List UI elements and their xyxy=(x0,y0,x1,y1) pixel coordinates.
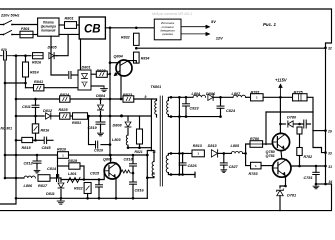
node x5-83 xyxy=(4,82,7,85)
svg-text:R817: R817 xyxy=(38,184,48,188)
label pin 32 xyxy=(328,47,332,51)
node R814-x5 link xyxy=(24,82,27,85)
node rail2 C826 xyxy=(181,152,184,155)
svg-text:режима: режима xyxy=(161,32,173,36)
node Q802 collector node xyxy=(109,154,112,157)
label pin 31 xyxy=(328,165,332,169)
wire pin29 to pin33 zigzag xyxy=(313,131,326,153)
node D811 gnd xyxy=(60,197,63,200)
wire C781 stem xyxy=(315,166,317,172)
node C826 bottom xyxy=(181,173,184,176)
wire D801 to ground xyxy=(91,85,104,87)
resistor R779 xyxy=(297,127,302,134)
transistor Q781 xyxy=(266,154,291,177)
wire line117 to R816v xyxy=(35,116,37,124)
diode D805 xyxy=(48,46,58,59)
wire C823 top xyxy=(185,97,187,103)
wire C816 bottom xyxy=(132,184,134,198)
wire R814 top xyxy=(25,56,27,62)
wire D813 to L805 xyxy=(219,152,232,154)
svg-text:NC 801: NC 801 xyxy=(1,127,13,131)
svg-text:R838: R838 xyxy=(97,69,107,73)
svg-text:D804: D804 xyxy=(96,94,106,98)
transistor Q780 xyxy=(266,133,290,154)
svg-text:R816: R816 xyxy=(41,129,51,133)
node line178-x16 xyxy=(15,177,18,180)
wire rail2 from T801 xyxy=(171,152,192,154)
svg-text:R819: R819 xyxy=(68,159,78,163)
capacitor C824 xyxy=(217,106,236,113)
ground main bus xyxy=(57,198,64,204)
node T801 s2 top xyxy=(170,152,173,155)
wire primary upper bottom stub xyxy=(156,115,158,118)
resistor R816 lower xyxy=(32,124,50,133)
wire L805 to node xyxy=(243,152,246,154)
node x5-155 xyxy=(4,154,7,157)
label transformer TK801 xyxy=(151,85,162,89)
wire filter to R801 xyxy=(59,24,65,26)
node C816 gnd xyxy=(132,197,135,200)
transformer T801 secondary upper winding xyxy=(167,101,169,115)
wire top supply rail xyxy=(0,9,332,48)
svg-text:D812: D812 xyxy=(43,109,53,113)
resistor R781 xyxy=(251,91,264,101)
node shield-97 xyxy=(178,96,181,99)
svg-text:10: 10 xyxy=(152,172,156,176)
node line155 on x147 crossing xyxy=(146,154,149,157)
wire C824 bottom xyxy=(220,108,222,116)
wire Q804 base xyxy=(110,62,120,64)
node rail-line155 xyxy=(109,154,112,157)
capacitor C845 xyxy=(42,137,52,150)
wire C826 bottom xyxy=(182,165,184,174)
fuse F801 xyxy=(20,27,33,38)
capacitor C826 xyxy=(179,163,197,168)
svg-text:Модуль питания МП-403-1: Модуль питания МП-403-1 xyxy=(152,12,193,16)
svg-text:R851: R851 xyxy=(72,121,81,125)
ground under C819 xyxy=(97,131,103,136)
node rail115 C824 xyxy=(219,96,222,99)
diode D813 xyxy=(208,144,218,157)
resistor R783 xyxy=(249,162,262,176)
wire CB bottom to optocoupler xyxy=(80,39,82,70)
wire C818-C816 xyxy=(132,166,134,181)
node switch S1 pole1 left xyxy=(3,24,5,26)
svg-text:питания: питания xyxy=(41,29,55,33)
node C781 top xyxy=(315,165,318,168)
transformer T801 core xyxy=(160,96,162,186)
node snubber mid xyxy=(132,172,135,175)
wire to R816 xyxy=(14,55,31,57)
svg-text:31: 31 xyxy=(328,165,332,169)
svg-text:620: 620 xyxy=(1,48,7,52)
diode D780 xyxy=(287,116,297,128)
resistor R775 xyxy=(293,91,308,101)
wire mains line 1 left xyxy=(0,24,4,26)
svg-text:C818: C818 xyxy=(124,157,134,161)
wire T801 shield rail xyxy=(178,97,180,174)
wire D781 to bottom rail xyxy=(279,196,281,211)
node T801 s1 top xyxy=(170,96,173,99)
wire line117 to C819 xyxy=(100,116,102,121)
diode D808 xyxy=(113,122,131,128)
wire Q802 emitter xyxy=(115,178,117,198)
wire 12V output arrow xyxy=(181,32,223,40)
inductor L804 xyxy=(192,92,206,97)
inductor L805 xyxy=(231,144,243,153)
transformer T801 secondary lower winding xyxy=(166,155,168,173)
svg-text:ТК801: ТК801 xyxy=(151,85,162,89)
wire rail 0V lower xyxy=(171,174,195,176)
node rail-R838 xyxy=(109,73,111,75)
node connector pin 32 xyxy=(324,47,327,50)
node R782-emitter xyxy=(298,165,301,168)
wire gnd bus up to T801 pin10 xyxy=(147,151,151,199)
svg-text:R821: R821 xyxy=(135,150,143,154)
node +115 junction xyxy=(279,96,282,99)
node C810 to line117 xyxy=(87,115,90,118)
wire D805 to filter drop xyxy=(54,55,57,57)
diode D812 xyxy=(43,109,53,119)
wire C823 bottom xyxy=(185,106,187,117)
wire R851 to rail xyxy=(88,115,152,117)
capacitor C810 xyxy=(94,141,104,152)
resistor R801 xyxy=(65,17,77,29)
wire D811 to gnd rail xyxy=(60,190,62,199)
svg-text:D811: D811 xyxy=(46,192,55,196)
node connector pin 34 xyxy=(324,183,327,186)
node C815 top xyxy=(98,178,101,181)
wire line99 to D804 xyxy=(100,99,102,104)
svg-text:Q802: Q802 xyxy=(103,158,113,162)
resistor R814 xyxy=(23,62,39,77)
svg-text:C815: C815 xyxy=(90,172,100,176)
wire R816v bottom xyxy=(35,133,37,140)
svg-text:R810: R810 xyxy=(57,148,67,152)
node D781 top xyxy=(284,185,287,188)
resistor R838 xyxy=(96,69,107,77)
resistor R821 xyxy=(137,129,143,144)
node Q804 base junction xyxy=(109,61,112,64)
wire R780 to Q780 xyxy=(263,143,273,145)
node line155-C818 xyxy=(132,154,135,157)
svg-text:D805: D805 xyxy=(48,46,58,50)
transistor Q802 xyxy=(103,158,121,180)
wire mains line 1 to filter xyxy=(12,24,38,26)
wire left rail x5 lower xyxy=(4,83,6,178)
wire C812 to gnd xyxy=(36,163,38,168)
wire main vertical rail from CB xyxy=(109,28,111,155)
node gnd bus left corner xyxy=(15,197,18,200)
wire L803 to node xyxy=(127,145,129,148)
svg-text:220v 50Hz: 220v 50Hz xyxy=(0,14,19,18)
resistor R824 xyxy=(60,93,70,102)
wire regulator frame xyxy=(266,111,313,113)
tick rail 0V end xyxy=(194,172,196,177)
wire pin34 link xyxy=(316,183,326,185)
label R821 and pin 11 xyxy=(135,150,157,154)
inductor L807 xyxy=(232,92,246,97)
svg-text:R780: R780 xyxy=(250,137,260,141)
svg-text:L807: L807 xyxy=(232,92,242,96)
svg-text:L803: L803 xyxy=(112,138,122,142)
node line117-C811 xyxy=(34,115,37,118)
capacitor C818 xyxy=(124,157,137,166)
optocoupler D801 xyxy=(78,66,91,91)
wire sec lower bottom xyxy=(168,173,171,175)
resistor R813 xyxy=(192,144,204,157)
diode D806 xyxy=(206,92,216,100)
svg-text:Q804: Q804 xyxy=(114,55,124,59)
wire C814 to D811 xyxy=(60,178,61,182)
node connector pin 33 xyxy=(324,151,327,154)
node T801 s2 bottom xyxy=(170,173,173,176)
diode D804 xyxy=(96,94,106,110)
wire C824 stem xyxy=(220,97,222,105)
capacitor C813 xyxy=(69,72,71,79)
svg-text:R825: R825 xyxy=(59,108,69,112)
label pin 10 xyxy=(152,172,156,176)
node T801 s1 bottom xyxy=(170,115,173,118)
node line117-term xyxy=(120,114,123,117)
node D780 junction xyxy=(279,123,282,126)
wire R832 junction to pin 32 xyxy=(136,47,325,49)
resistor R819 xyxy=(68,159,80,169)
wire mains line 2 to fuse xyxy=(12,34,20,36)
wire R783 to Q781 xyxy=(261,165,273,167)
label pin 9 xyxy=(145,95,147,99)
svg-text:C816: C816 xyxy=(135,189,145,193)
node C815 gnd xyxy=(98,197,101,200)
wire R782 bottom xyxy=(299,156,301,167)
node C823 top xyxy=(185,96,188,99)
wire R819 left xyxy=(58,165,69,167)
capacitor C781 xyxy=(304,172,320,180)
node rail-line117 xyxy=(109,115,112,118)
svg-text:C814: C814 xyxy=(47,167,57,171)
wire node to pin11 line xyxy=(128,147,151,149)
svg-text:C812: C812 xyxy=(24,162,34,166)
svg-text:32: 32 xyxy=(328,47,332,51)
wire C827 stem xyxy=(223,153,225,163)
svg-text:C823: C823 xyxy=(190,107,200,111)
node shield-116 xyxy=(178,115,181,118)
+115V arrow xyxy=(275,78,288,98)
resistor R820 zigzag xyxy=(121,170,133,173)
resistor R815 xyxy=(22,137,33,149)
wire C818 stem xyxy=(132,155,134,163)
wire R824 to R823 xyxy=(70,98,123,100)
resistor R825 xyxy=(59,108,71,119)
svg-text:R775: R775 xyxy=(294,91,304,95)
inductor L806 xyxy=(24,176,36,188)
wire R841 to optocoupler xyxy=(44,87,78,89)
wire line99 left xyxy=(16,98,60,100)
label pin 34 xyxy=(329,180,333,184)
degaussing CB box xyxy=(79,17,105,39)
svg-text:C827: C827 xyxy=(229,165,239,169)
wire C780 right tick xyxy=(307,123,311,125)
node CB out junction B xyxy=(135,27,138,30)
wire C827 gnd stem xyxy=(223,165,225,168)
wire R822 bottom xyxy=(87,194,89,199)
svg-text:Q781: Q781 xyxy=(266,154,275,158)
label pin 33 xyxy=(328,151,332,155)
wire line117 xyxy=(16,115,44,117)
resistor R780 xyxy=(250,137,263,147)
svg-text:R841: R841 xyxy=(34,80,43,84)
node R814 top xyxy=(24,54,27,57)
ground under C812 xyxy=(34,168,40,173)
label figure caption xyxy=(263,22,276,27)
resistor R823 xyxy=(123,93,134,102)
svg-text:34: 34 xyxy=(329,180,333,184)
wire cap to D801 xyxy=(51,36,68,75)
wire Q781 base feed xyxy=(246,153,251,165)
wire R810 down loop xyxy=(57,155,59,178)
capacitor C811 xyxy=(22,105,39,109)
svg-text:D808: D808 xyxy=(113,124,123,128)
wire C810 branch xyxy=(101,144,110,146)
wire D780 to cap xyxy=(294,123,303,125)
wire Q780 base feed xyxy=(246,144,250,153)
wire left rail x16 xyxy=(0,56,16,204)
capacitor C819 xyxy=(88,122,106,130)
node line99-D xyxy=(99,98,102,101)
node shield-174 xyxy=(178,173,181,176)
wire 5V output arrow xyxy=(181,19,216,28)
svg-text:33: 33 xyxy=(328,151,332,155)
capacitor C812 xyxy=(24,161,42,166)
wire R841 left xyxy=(26,87,34,89)
resistor R782 xyxy=(297,148,312,160)
node C812 top xyxy=(36,154,39,157)
wire rail115 from T801 xyxy=(171,96,193,98)
resistor R822 xyxy=(74,183,91,194)
node rail-line144 xyxy=(109,143,112,146)
wire Q780-Q781 link xyxy=(280,151,283,160)
svg-text:R834: R834 xyxy=(141,57,150,61)
svg-text:D801: D801 xyxy=(82,66,91,70)
wire D812 to R8x xyxy=(52,115,60,117)
svg-text:R815: R815 xyxy=(22,146,32,150)
wire rail 0V secondary xyxy=(171,116,221,118)
svg-text:C826: C826 xyxy=(188,164,198,168)
wire D780 left xyxy=(280,123,285,125)
svg-text:R813: R813 xyxy=(193,144,203,148)
wire R814 bottom xyxy=(25,77,27,88)
svg-text:C811: C811 xyxy=(22,105,31,109)
switch S1 pole 1 xyxy=(4,21,12,25)
inductor L803 xyxy=(112,135,128,145)
node Q802 emitter gnd xyxy=(115,197,118,200)
resistor R816 xyxy=(32,53,43,65)
wire D801 to R838 xyxy=(91,73,96,75)
svg-text:L805: L805 xyxy=(231,144,241,148)
svg-text:СВ: СВ xyxy=(84,24,101,36)
svg-text:R783: R783 xyxy=(249,172,259,176)
svg-text:R814: R814 xyxy=(30,71,39,75)
svg-text:R801: R801 xyxy=(65,17,74,21)
wire R781 to R775 xyxy=(263,96,292,98)
transformer T801 primary upper winding xyxy=(155,101,157,115)
wire pin9-pin11 vertical xyxy=(150,99,152,151)
node line155-x147 xyxy=(146,154,149,157)
resistor R834 xyxy=(134,52,150,63)
diode D811 xyxy=(46,183,64,196)
svg-text:9: 9 xyxy=(145,95,147,99)
resistor R810 xyxy=(57,148,69,159)
wire filter drop to D805 line xyxy=(57,34,68,55)
resistor R817 xyxy=(38,175,50,188)
wire line178 xyxy=(5,177,24,179)
wire R823 to T801 pin9 xyxy=(134,98,157,100)
wire primary upper top xyxy=(156,99,158,101)
node CB out junction A xyxy=(109,27,112,30)
resistor R851 xyxy=(72,113,88,125)
wire cap right xyxy=(72,74,78,76)
standby power supply box xyxy=(154,19,181,40)
wire Q802 collector xyxy=(110,155,112,163)
capacitor C814 xyxy=(47,167,59,182)
wire Q781 emitter down xyxy=(280,176,286,186)
wire pin29 link xyxy=(313,130,326,132)
svg-text:F801: F801 xyxy=(21,27,30,31)
svg-text:R781: R781 xyxy=(251,91,260,95)
node line99-x16 xyxy=(15,98,18,101)
wire filter bottom out xyxy=(59,33,79,35)
wire R810 to Q802 collector xyxy=(69,154,148,156)
node R815 junction xyxy=(34,139,37,142)
label pin 29 xyxy=(327,129,332,133)
power filter board box xyxy=(38,18,59,36)
node switch S1 pole2 right xyxy=(11,34,13,36)
node L803 bottom xyxy=(127,146,130,149)
wire D781 stem xyxy=(279,186,281,188)
resistor R841 xyxy=(34,80,44,91)
wire C811 stem xyxy=(35,99,37,105)
wire Q804 collector elbow xyxy=(128,61,136,64)
wire C781 bottom xyxy=(315,175,317,185)
wire fuse to filter box xyxy=(33,34,38,36)
svg-text:L801: L801 xyxy=(68,172,77,176)
wire bottom return rail xyxy=(0,184,332,211)
svg-text:D806: D806 xyxy=(206,92,216,96)
node regulator input xyxy=(244,152,247,155)
wire pin10 stub xyxy=(147,177,154,178)
node C823 bottom xyxy=(185,115,188,118)
svg-text:R782: R782 xyxy=(304,155,313,159)
wire pin11 stub xyxy=(151,151,154,162)
transformer T801 primary lower winding xyxy=(152,162,154,177)
node R832 bottom xyxy=(135,47,138,50)
node Q804 emitter to line xyxy=(120,98,123,101)
node C781-pin34 xyxy=(315,183,318,186)
node line99-C811 xyxy=(34,98,37,101)
wire R819 right xyxy=(80,166,84,180)
wire R779 to R782 xyxy=(299,134,301,148)
ground under C781 xyxy=(313,184,319,189)
wire C811 to line117 xyxy=(35,107,37,116)
wire R775 to pin29 drop xyxy=(307,97,313,130)
wire Q781 right to pin31 xyxy=(291,165,326,167)
wire R817 right xyxy=(50,177,57,179)
node connector pin 31 xyxy=(324,165,327,168)
node rail-line99 xyxy=(109,98,112,101)
wire D804 to line117 xyxy=(100,112,102,117)
wire x5-x16 link xyxy=(5,82,26,84)
svg-text:R816: R816 xyxy=(32,61,42,65)
